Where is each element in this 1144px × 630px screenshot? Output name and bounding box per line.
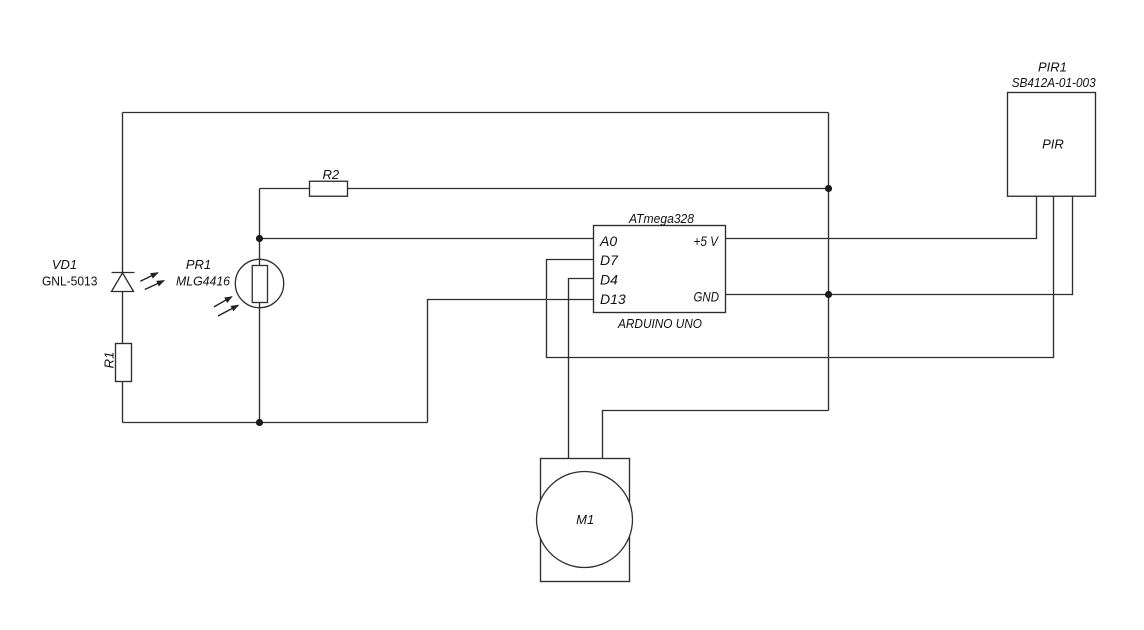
PIR sensor PIR1 box [1008,93,1096,197]
arduino U1 box [594,226,726,313]
svg-text:ATmega328: ATmega328 [628,211,695,226]
svg-text:D13: D13 [600,291,626,307]
svg-text:PIR: PIR [1042,136,1064,151]
junction at bottom rail [256,419,263,426]
junction at R2 right rail [825,185,832,192]
svg-text:MLG4416: MLG4416 [176,274,231,289]
svg-text:PR1: PR1 [186,257,211,272]
svg-text:D7: D7 [600,252,619,268]
wire A0 to node A [260,238,594,240]
wire PR1 top lead [259,189,261,266]
junction at GND right rail [825,291,832,298]
wire R2 left lead [260,188,310,190]
svg-text:GND: GND [694,289,720,305]
wire LED to R1 [122,292,124,344]
svg-text:+5 V: +5 V [694,233,720,249]
wire bottom rail [123,422,428,424]
wire +5V to PIR left pin [726,196,1037,239]
svg-text:D4: D4 [600,272,618,288]
svg-text:SB412A-01-003: SB412A-01-003 [1012,75,1097,90]
wire LED top lead [122,113,124,273]
wire R1 bottom lead [122,382,124,423]
svg-text:GNL-5013: GNL-5013 [42,274,98,289]
motor M1 rotor circle [537,472,633,568]
motor M1 body [541,459,630,582]
photoresistor PR1 light arrows [214,297,238,316]
resistor R2 [310,181,348,196]
LED VD1 symbol [112,273,135,292]
LED VD1 emission arrows [140,273,164,290]
svg-text:A0: A0 [599,233,617,249]
wire GND to PIR right pin [726,196,1073,295]
svg-text:M1: M1 [576,512,594,527]
svg-text:VD1: VD1 [52,257,77,272]
wire D7 to PIR middle pin [547,196,1054,358]
resistor R1 [116,344,132,382]
wire PR1 bottom lead [259,303,261,423]
svg-text:PIR1: PIR1 [1038,60,1067,75]
wire R2 right lead [348,188,829,190]
wire D13 to bottom rail [428,300,594,423]
wire right rail vertical [828,113,830,411]
wire top rail [123,112,829,114]
wire D4 to motor left pin [569,279,594,459]
wire motor right pin to right rail [603,411,829,459]
photoresistor PR1 symbol [235,259,283,307]
svg-text:R1: R1 [102,352,117,369]
junction at A0 node [256,235,263,242]
svg-text:R2: R2 [322,167,339,182]
svg-text:ARDUINO UNO: ARDUINO UNO [617,316,702,331]
